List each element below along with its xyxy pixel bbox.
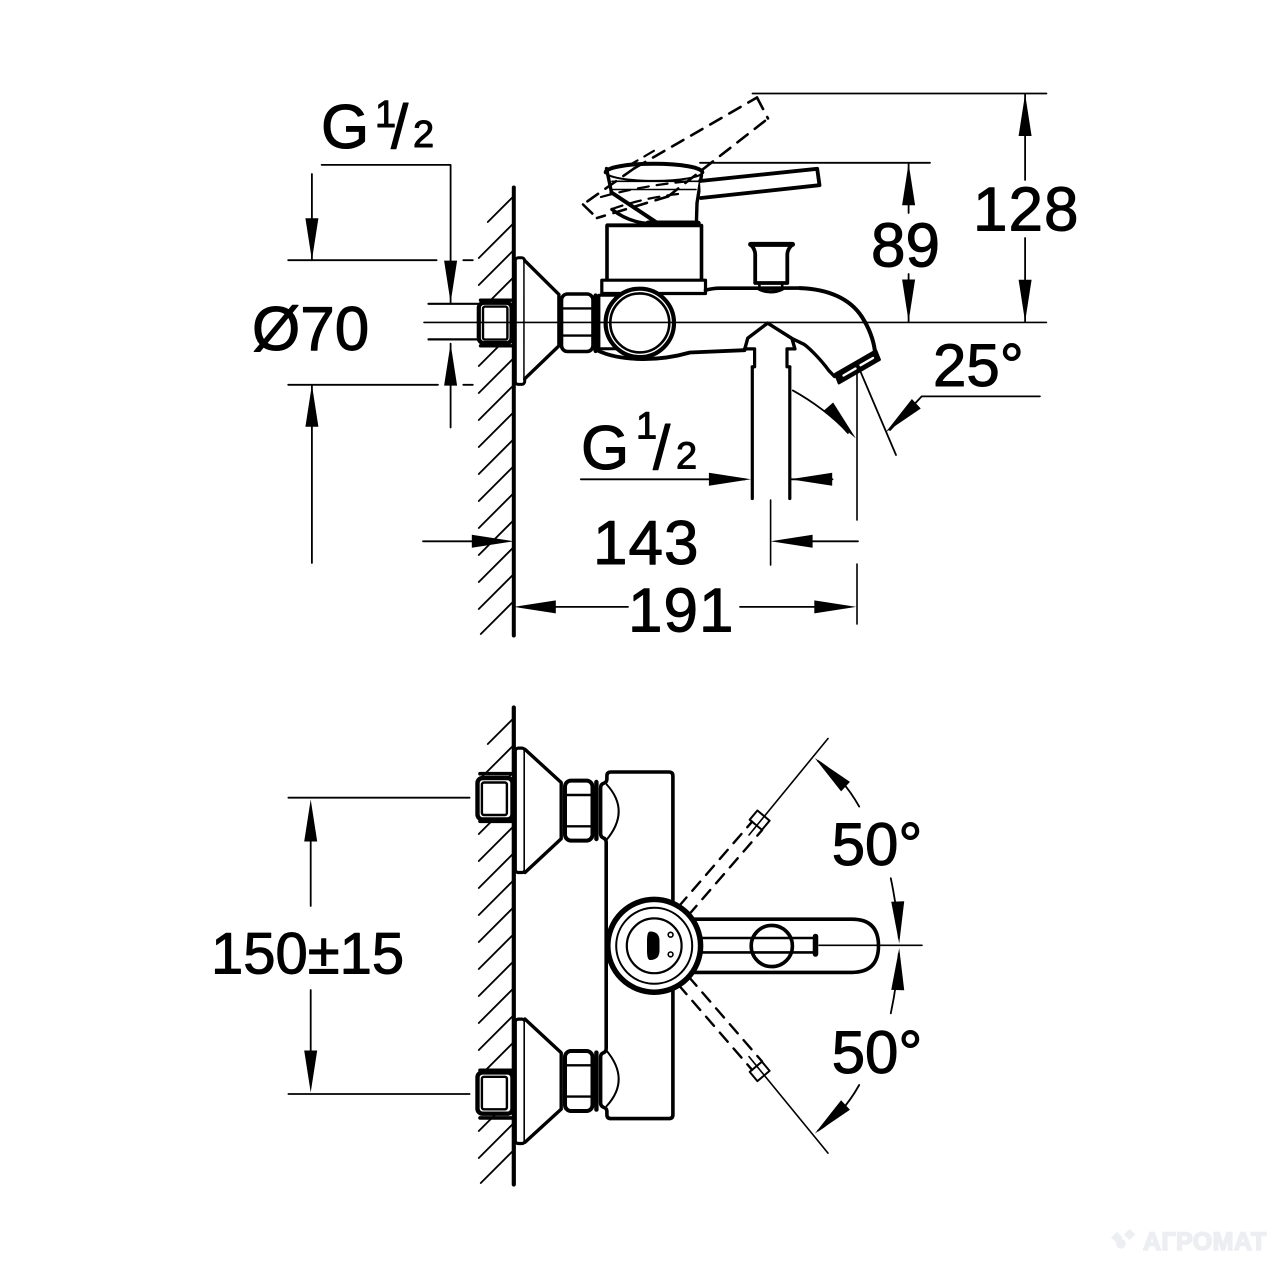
cartridge base flange [602,280,706,293]
dashed rim arcs of raised handle [601,149,686,209]
150 extension stub lines [288,798,469,1094]
upper 50 leader line [749,739,828,836]
svg-text:191: 191 [628,576,734,645]
hex nut (top view) [562,294,594,352]
handle inner bar [690,938,816,952]
label G 1/2 (outlet) [581,406,697,483]
25 deg arc with arrow [793,390,848,433]
svg-text:143: 143 [593,509,699,578]
boss arc (lower) [606,1050,619,1106]
handle axis line [819,944,922,946]
extension line from raised lever tip (128 top) [753,93,1047,95]
svg-text:G: G [581,414,629,483]
svg-text:АГРОМАТ: АГРОМАТ [1143,1228,1267,1256]
body top edge [706,288,801,290]
25 deg vertical reference line [856,373,858,624]
wall hatching (top view) [479,196,514,634]
150 dimension line [310,840,312,1052]
dome sides [607,169,612,193]
safestop half-moon mark [647,932,660,961]
svg-text:128: 128 [973,176,1079,245]
handle screw circle [751,925,792,966]
25 deg slanted spray line [859,369,896,455]
square union nut on wall [479,303,512,343]
outlet pipe [752,367,790,499]
body face plate [599,295,648,349]
washer lines behind square union [481,300,513,346]
svg-text:25°: 25° [933,332,1024,399]
svg-text:50°: 50° [832,1019,923,1086]
wall line (top view) [512,188,516,636]
wall hatching (bottom view) [479,718,514,1183]
hex nut (lower) [565,1051,593,1111]
square union (upper) [478,778,513,819]
outlet collar [745,349,795,367]
hex nut (upper) [565,781,593,841]
128 dimension line [1024,94,1026,322]
collar arc under dome [612,209,652,223]
lower 50 leader line [749,1057,828,1154]
svg-text:2: 2 [676,435,697,477]
dashed lever position lower (50 deg) [679,977,762,1070]
washer ring (upper) [594,782,598,839]
escutcheon cone (upper) [525,749,561,872]
cartridge cap circles (bottom view) [608,899,701,992]
washer ring (lower) [594,1053,598,1110]
svg-text:50°: 50° [832,811,923,878]
valve body circle [606,289,674,357]
washer lines (lower union) [480,1070,512,1118]
lower 50 centerline arrow [891,954,899,1014]
diverter knob [759,283,782,289]
dome tilted bottom edge [612,193,656,222]
svg-text:/: / [653,414,671,483]
svg-text:/: / [391,93,409,162]
89 dimension line [908,163,910,321]
Ø70 dimension arrows [311,174,313,563]
lower 50 arc arrow [818,1085,859,1131]
body (bottom view) [601,772,673,1119]
25 deg label leader with arrow [890,396,1040,430]
svg-text:G: G [321,93,369,162]
collar band under dome [607,223,649,225]
143 dimension line (outside arrows) [423,540,474,542]
upper dashed lever end cap [750,811,770,830]
extension line 89 top [700,162,930,164]
square union (lower) [478,1072,513,1113]
dashed raised lever [583,98,768,219]
svg-text:Ø70: Ø70 [252,295,369,364]
G1/2 outlet leader arrows [581,478,745,480]
dashed lever position upper (50 deg) [679,822,762,915]
label G 1/2 (supply, top-left) [321,93,434,162]
escutcheon base plate (lower) [515,1019,525,1143]
Ø70 extension lines [288,259,473,261]
spout outer curve [800,288,875,351]
cartridge housing [607,226,702,282]
dome rim ellipse [606,164,703,173]
lower dashed lever end cap [750,1062,770,1081]
escutcheon base plate (top view) [515,258,524,385]
outlet pipe centerline [770,500,772,565]
supply pipe stubs [429,304,479,340]
svg-text:89: 89 [871,211,940,280]
handle capsule (bottom view) [660,919,879,972]
escutcheon cone (lower) [525,1019,561,1142]
dome rim thin lines [612,181,698,189]
body bottom edge [597,350,745,359]
G1/2 top bracket [322,165,451,428]
centerline (top view) [424,321,1046,323]
safestop dots [668,932,673,937]
wall line (bottom view) [512,708,516,1185]
watermark АГРОМАТ [1111,1228,1267,1256]
escutcheon base plate (upper) [515,748,525,872]
washer lines (upper union) [480,774,512,822]
svg-text:150±15: 150±15 [211,922,404,987]
solid lever handle [700,169,820,198]
shower outlet pentagon [745,323,795,350]
upper 50 centerline arrow [891,878,899,938]
svg-text:2: 2 [413,114,434,156]
escutcheon cone (top view) [525,261,559,379]
washer ring between nut and body [593,296,597,352]
upper 50 arc arrow [818,761,859,807]
aerator band at spout tip [835,351,879,384]
191 dimension line (inside arrows) [553,606,817,608]
spout inner curve [792,339,834,377]
boss arc (upper) [606,785,619,841]
